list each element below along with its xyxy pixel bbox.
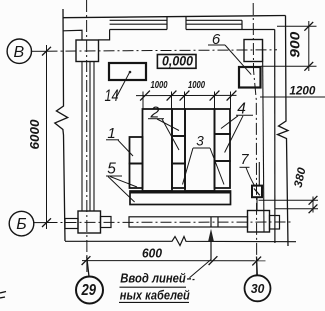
column TR <box>244 40 263 62</box>
right stack boxes <box>215 109 231 188</box>
elevation box 0,000 <box>157 54 196 69</box>
wire left wall outer face with break <box>55 9 68 241</box>
wire right wall outer face with break <box>278 16 289 247</box>
box 7 equipment <box>252 162 262 211</box>
panel A <box>143 109 173 191</box>
svg-text:ных кабелей: ных кабелей <box>120 287 190 302</box>
grid bubble В <box>7 39 31 63</box>
dimension 380 right lower <box>259 166 319 213</box>
label 6 <box>208 31 251 75</box>
cable entry arrow <box>190 229 214 278</box>
svg-text:1000: 1000 <box>188 80 205 91</box>
wire riser line 1 between left columns <box>81 62 83 212</box>
wire top wall inner face left segment with step <box>64 30 83 40</box>
column BL <box>78 211 101 233</box>
svg-text:380: 380 <box>293 166 309 189</box>
wire riser line 3 between left columns <box>93 62 95 212</box>
svg-text:30: 30 <box>251 281 265 296</box>
wire right wall inner face <box>274 29 276 243</box>
column BL left stub <box>65 219 78 229</box>
dimension 6000 left vertical <box>27 45 51 229</box>
svg-text:14: 14 <box>105 86 119 105</box>
svg-text:В: В <box>13 44 24 61</box>
label 7 <box>240 152 256 186</box>
stray scan mark bottom-left <box>0 292 6 299</box>
label 2 <box>148 105 179 151</box>
grid bubble Б <box>9 211 34 236</box>
dimension 1000+1000 over cabinets <box>136 80 237 109</box>
svg-text:3: 3 <box>196 134 204 149</box>
wire riser line 2 between left columns <box>89 62 91 212</box>
label 5 <box>106 161 137 203</box>
svg-text:5: 5 <box>107 161 116 178</box>
axis B horizontal dash-dot <box>31 50 277 52</box>
note text line 2 <box>119 287 190 302</box>
svg-text:1000: 1000 <box>151 80 168 91</box>
note text line 1 <box>120 271 195 288</box>
label 1 <box>106 125 133 156</box>
svg-text:7: 7 <box>240 152 249 168</box>
axis 30 vertical dash-dot <box>253 3 257 276</box>
box 14 <box>109 63 146 80</box>
dimension 600 bottom <box>82 246 266 266</box>
middle stack boxes <box>172 109 185 188</box>
dimension 900 right vertical <box>261 21 317 71</box>
cabinet base plinth <box>130 191 231 205</box>
wire top wall notch right of column TL <box>99 30 110 40</box>
label 4 <box>221 101 253 153</box>
leader 14 <box>117 71 132 97</box>
wire bottom wall outer line with break <box>65 237 296 246</box>
label 3 <box>183 134 225 185</box>
column TL <box>76 40 99 62</box>
axis B-lower horizontal dash-dot <box>33 221 291 224</box>
svg-text:29: 29 <box>81 282 96 299</box>
grid bubble 29 <box>76 257 103 304</box>
svg-text:0,000: 0,000 <box>162 54 193 69</box>
wire top wall channel band segment 1 <box>110 17 167 30</box>
wire top wall outer face <box>63 16 286 18</box>
panel B <box>185 109 215 191</box>
wire right wall inner ledge line <box>263 40 265 233</box>
svg-text:600: 600 <box>142 246 163 261</box>
column BL right stub <box>101 217 112 228</box>
svg-text:Б: Б <box>16 216 26 233</box>
box 6 equipment <box>239 67 261 88</box>
wire top wall channel band segment 2 <box>186 17 275 30</box>
axis 29 vertical dash-dot <box>86 0 88 272</box>
svg-text:6000: 6000 <box>27 119 42 150</box>
svg-text:900: 900 <box>288 31 303 58</box>
bottom cable channel <box>129 217 248 227</box>
svg-text:1200: 1200 <box>289 85 316 97</box>
column BR <box>248 211 270 233</box>
grid bubble 30 <box>245 257 271 302</box>
dimension 1200 right <box>260 85 325 97</box>
column BR right stub <box>270 216 280 230</box>
left stack boxes item 1 and 5 <box>130 137 143 188</box>
svg-text:Ввод линей: Ввод линей <box>120 271 186 286</box>
